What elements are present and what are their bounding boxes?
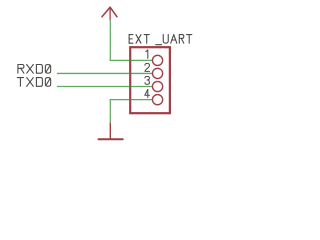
pin 1 circle <box>152 55 162 65</box>
pin 2 circle <box>152 68 162 78</box>
wire to pin 1 <box>110 59 153 61</box>
net label RXD0 <box>18 65 51 74</box>
connector J1 EXT_UART body <box>130 47 170 113</box>
wire from power symbol down <box>109 20 111 62</box>
net label TXD0 <box>17 78 50 87</box>
wire RXD0 to pin 2 <box>57 72 152 74</box>
pin 3 circle <box>152 81 162 91</box>
junction wire over box edge pin 2 <box>129 72 131 74</box>
pin number 3 <box>145 76 150 84</box>
wire down to ground <box>109 99 111 124</box>
pin number 4 <box>145 90 150 98</box>
power symbol arrow <box>102 7 117 20</box>
pin number 1 <box>146 50 148 58</box>
junction wire over box edge pin 1 <box>129 59 131 61</box>
junction wire over box edge pin 3 <box>129 86 131 88</box>
ground symbol <box>99 124 123 140</box>
wire from pin 4 <box>110 99 153 101</box>
label EXT_UART <box>129 35 192 45</box>
pin 4 circle <box>152 95 162 105</box>
pin number 2 <box>145 63 150 71</box>
junction wire over box edge pin 4 <box>129 99 131 101</box>
wire TXD0 to pin 3 <box>57 86 152 88</box>
